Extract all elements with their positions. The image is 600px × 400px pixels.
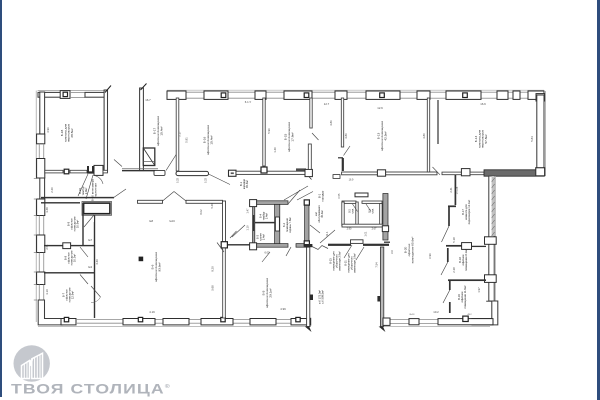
svg-text:1.01: 1.01 [365,231,368,236]
svg-text:5.96: 5.96 [267,128,271,134]
svg-text:6.1 У: 6.1 У [245,100,252,104]
svg-text:туал.: туал. [371,208,374,214]
svg-text:12.9: 12.9 [377,106,383,110]
svg-text:2.4м²: 2.4м² [264,213,268,219]
svg-text:45.4м²: 45.4м² [320,210,324,218]
svg-text:5.68: 5.68 [211,285,215,291]
svg-text:10.9м²: 10.9м² [76,220,80,228]
svg-text:3.10: 3.10 [45,289,49,295]
svg-text:4.80: 4.80 [422,133,426,139]
svg-text:№3: №3 [88,265,93,269]
svg-text:приточная: приточная [94,183,98,197]
svg-text:охраны 7.6м²: охраны 7.6м² [288,217,292,233]
svg-text:0.55: 0.55 [338,193,341,198]
svg-text:3.9м²: 3.9м² [84,188,88,195]
svg-text:9.20: 9.20 [211,266,215,272]
svg-text:4.86: 4.86 [329,120,333,126]
svg-text:инвентаря 2.9м²: инвентаря 2.9м² [337,251,341,271]
svg-text:6.96: 6.96 [428,253,432,259]
svg-text:с.б 509.5м²: с.б 509.5м² [321,290,325,304]
svg-text:28.5м²: 28.5м² [70,128,74,137]
svg-text:6.02: 6.02 [199,209,203,215]
svg-text:49.2: 49.2 [467,314,472,316]
svg-text:57.8м²: 57.8м² [484,134,488,143]
svg-text:5.18: 5.18 [452,237,456,243]
svg-text:42.5м²: 42.5м² [383,131,387,140]
svg-text:17.8м²: 17.8м² [290,132,294,141]
svg-text:2.90: 2.90 [347,228,352,231]
svg-text:туал.: туал. [351,208,354,214]
svg-text:16.9: 16.9 [349,179,354,182]
svg-text:1.10: 1.10 [246,225,250,231]
svg-text:1=1.25: 1=1.25 [456,186,459,194]
svg-text:3.96: 3.96 [46,127,50,133]
svg-text:3.0: 3.0 [390,250,394,254]
svg-text:2.41: 2.41 [449,187,453,193]
svg-text:3.48: 3.48 [45,207,49,213]
svg-text:12.7: 12.7 [324,102,330,106]
svg-text:помещение 11.6м²: помещение 11.6м² [463,285,467,308]
svg-text:коридор: коридор [321,190,325,201]
svg-text:12.9м²: 12.9м² [71,291,75,299]
svg-text:5.81: 5.81 [185,137,189,143]
svg-text:2.20: 2.20 [50,187,54,193]
svg-text:2.67: 2.67 [372,228,377,231]
svg-text:1.97: 1.97 [477,287,481,293]
svg-text:15.4м²: 15.4м² [209,135,213,144]
svg-text:16.9: 16.9 [480,102,486,106]
svg-text:№7: №7 [88,238,93,242]
svg-text:15.4м²: 15.4м² [159,126,163,135]
svg-text:4.40: 4.40 [95,259,99,265]
svg-text:2.51: 2.51 [45,244,49,250]
svg-text:№8: №8 [149,220,154,223]
svg-text:29.1м²: 29.1м² [268,288,272,297]
svg-text:10.2: 10.2 [433,310,439,314]
svg-text:0.33: 0.33 [177,177,180,182]
svg-text:5.40: 5.40 [210,203,214,209]
svg-text:16.7: 16.7 [145,98,151,102]
svg-text:2.4м²: 2.4м² [261,234,265,240]
svg-text:4.19: 4.19 [149,310,155,314]
svg-text:1.40: 1.40 [273,147,277,153]
svg-text:помещение 60.6м²: помещение 60.6м² [410,237,414,264]
svg-text:7.54: 7.54 [375,262,379,268]
svg-text:5.17: 5.17 [178,131,182,137]
svg-text:№13: №13 [410,313,416,316]
svg-text:помещение 8.1м²: помещение 8.1м² [464,249,468,271]
svg-text:инвентаря 1.9м²: инвентаря 1.9м² [352,253,356,273]
svg-text:№16: №16 [169,220,175,223]
svg-text:10.3м²: 10.3м² [73,254,77,262]
svg-text:4.99: 4.99 [280,307,286,311]
svg-text:45.4м²: 45.4м² [245,180,249,188]
svg-text:1.47: 1.47 [246,208,250,214]
svg-text:переговоров 12.1м²: переговоров 12.1м² [467,200,471,224]
svg-text:5.84: 5.84 [530,136,534,142]
svg-text:4.86: 4.86 [344,133,348,139]
svg-text:93.6м²: 93.6м² [157,262,161,271]
svg-text:0.33: 0.33 [205,177,208,182]
svg-text:2.38: 2.38 [452,267,456,273]
